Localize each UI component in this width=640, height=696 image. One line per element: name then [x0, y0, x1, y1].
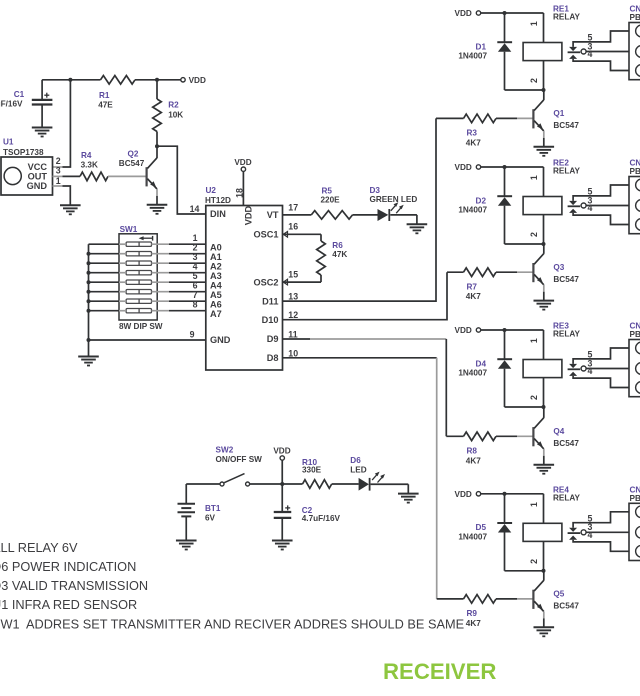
wire VDD rail (relay 4): [481, 493, 544, 495]
node rail/C1/U1 junction: [68, 78, 72, 82]
wire diode bottom to coil pin 2: [505, 406, 544, 408]
svg-text:R7: R7: [467, 282, 478, 291]
LED D3 GREEN LED: [370, 186, 418, 224]
wire VDD rail down to U1 VCC: [53, 80, 71, 167]
IC U1 TSOP1738 IR sensor: [1, 138, 53, 196]
node bus/GND junction: [87, 338, 91, 342]
svg-text:4: 4: [588, 203, 593, 213]
svg-text:VDD: VDD: [455, 326, 472, 335]
node bus row 4: [87, 271, 91, 275]
svg-text:BC547: BC547: [119, 159, 145, 168]
wire OSC2 pin 15: [283, 281, 322, 283]
resistor R6 47K: [317, 234, 348, 282]
svg-text:SW1 ADDRES SET TRANSMITTER AN: SW1 ADDRES SET TRANSMITTER AND RECIVER A…: [0, 616, 464, 631]
svg-text:3.3K: 3.3K: [81, 161, 98, 170]
svg-text:BC547: BC547: [553, 602, 579, 611]
node VDD/D2 junction: [503, 165, 507, 169]
capacitor C2 4.7uF/16V: [274, 484, 341, 540]
svg-text:PBO: PBO: [630, 494, 640, 503]
svg-text:GND: GND: [27, 181, 48, 191]
transistor Q2 BC547: [147, 146, 157, 205]
svg-text:17: 17: [288, 202, 298, 212]
svg-text:U2: U2: [206, 186, 217, 195]
svg-text:Q5: Q5: [553, 590, 564, 599]
transistor Q4 BC547: [533, 407, 579, 465]
wire bus to ground: [88, 340, 90, 356]
node bus row 6: [87, 290, 91, 294]
svg-text:R1: R1: [99, 91, 110, 100]
svg-text:4: 4: [588, 530, 593, 540]
transistor Q1 BC547: [533, 90, 579, 147]
svg-text:R8: R8: [467, 447, 478, 456]
svg-text:12: 12: [288, 310, 298, 320]
wire SW1 row 8 to U2 A7: [152, 310, 206, 312]
svg-text:1: 1: [529, 338, 539, 343]
svg-text:OSC1: OSC1: [253, 230, 278, 240]
svg-text:330E: 330E: [302, 465, 322, 474]
wire R1 to VDD terminal: [135, 79, 181, 81]
svg-text:9: 9: [190, 330, 195, 340]
svg-text:PBO: PBO: [630, 13, 640, 22]
svg-text:PBO: PBO: [630, 330, 640, 339]
wire SW1 row 6 left: [89, 291, 127, 293]
ground (U1): [60, 205, 81, 214]
wire D11 pin 13 to R3: [283, 118, 437, 301]
wire SW1 row 1 to U2 A0: [152, 243, 206, 245]
svg-text:4.7uF/16V: 4.7uF/16V: [0, 100, 23, 109]
ground (SW1 bus): [78, 357, 99, 366]
svg-text:1: 1: [193, 233, 198, 243]
svg-text:1N4007: 1N4007: [458, 52, 487, 61]
battery BT1 6V: [178, 484, 221, 540]
wire diode bottom to coil pin 2: [505, 243, 544, 245]
resistor R8 4K7: [446, 432, 533, 465]
svg-text:D2: D2: [476, 196, 487, 205]
wire SW1 row 4 to U2 A3: [152, 272, 206, 274]
wire contact 5 (NC): [573, 185, 629, 201]
svg-text:1N4007: 1N4007: [458, 206, 487, 215]
svg-text:D3: D3: [370, 186, 381, 195]
diode D1 1N4007: [458, 13, 512, 90]
svg-text:1: 1: [529, 21, 539, 26]
svg-text:D10: D10: [262, 315, 279, 325]
svg-text:D9: D9: [267, 334, 279, 344]
power terminal VDD (relay 3): [455, 326, 481, 335]
wire U1 GND to ground: [53, 186, 71, 205]
resistor R10 330E: [302, 458, 332, 488]
svg-text:A3: A3: [210, 271, 222, 281]
svg-text:C1: C1: [14, 90, 25, 99]
svg-text:VDD: VDD: [189, 76, 206, 85]
svg-text:VDD: VDD: [455, 9, 472, 18]
svg-text:16: 16: [288, 222, 298, 232]
svg-text:A6: A6: [210, 300, 222, 310]
wire SW1 row 7 left: [89, 300, 127, 302]
ground (C1): [32, 128, 53, 137]
svg-text:47K: 47K: [332, 250, 347, 259]
svg-text:2: 2: [529, 78, 539, 83]
svg-text:RELAY: RELAY: [553, 493, 581, 502]
OSC2 input marker: [283, 279, 287, 285]
svg-text:Q3: Q3: [553, 263, 564, 272]
svg-text:ALL RELAY 6V: ALL RELAY 6V: [0, 540, 78, 555]
node coil pin2/collector junction: [542, 569, 546, 573]
svg-text:PBO: PBO: [630, 167, 640, 176]
wire contact 3 (common): [586, 51, 629, 53]
wire Q2 collector to U2 DIN (pin 14): [157, 146, 206, 214]
svg-text:4: 4: [193, 262, 198, 272]
svg-text:BC547: BC547: [553, 275, 579, 284]
svg-text:1: 1: [56, 176, 61, 186]
svg-text:R5: R5: [322, 187, 333, 196]
svg-text:RECEIVER: RECEIVER: [383, 659, 496, 684]
OSC1 input marker: [283, 232, 287, 238]
svg-text:LED: LED: [350, 465, 366, 474]
transistor Q3 BC547: [533, 244, 579, 301]
resistor R9 4K7: [437, 595, 533, 628]
svg-text:D4: D4: [476, 359, 487, 368]
wire VDD rail (relay 1): [481, 12, 544, 14]
connector CN1 terminal block: [629, 5, 640, 80]
wire VT pin 17: [283, 214, 312, 216]
svg-text:OSC2: OSC2: [253, 277, 278, 287]
svg-text:A1: A1: [210, 252, 222, 262]
svg-text:2: 2: [193, 243, 198, 253]
wire SW1 row 4 left: [89, 272, 127, 274]
svg-text:A7: A7: [210, 309, 222, 319]
power terminal VDD (relay 2): [455, 163, 481, 172]
svg-text:OUT: OUT: [28, 172, 48, 182]
transistor Q5 BC547: [533, 571, 579, 628]
wire contact 4 (NO): [573, 59, 629, 71]
wire SW1 row 3 left: [89, 262, 127, 264]
node bus row 5: [87, 280, 91, 284]
relay RE2 RELAY coil: [523, 159, 580, 244]
wire contact 4 (NO): [573, 213, 629, 225]
wire R10 to D6: [332, 483, 359, 485]
svg-text:D11: D11: [262, 296, 278, 306]
node bus row 7: [87, 299, 91, 303]
svg-text:4K7: 4K7: [466, 292, 481, 301]
svg-text:220E: 220E: [321, 196, 341, 205]
ground (emitter of Q2): [147, 205, 168, 214]
resistor R7 4K7: [447, 268, 533, 301]
resistor R5 220E: [311, 187, 352, 220]
svg-text:Q2: Q2: [128, 149, 139, 158]
svg-text:GREEN LED: GREEN LED: [370, 195, 418, 204]
svg-text:1N4007: 1N4007: [458, 533, 487, 542]
wire SW1 row 3 to U2 A2: [152, 262, 206, 264]
node R2/Q2 collector junction: [155, 144, 159, 148]
power terminal VDD (supply): [273, 447, 290, 484]
wire contact 4 (NO): [573, 540, 629, 552]
svg-text:11: 11: [288, 330, 297, 340]
wire SW1 row 7 to U2 A6: [152, 300, 206, 302]
svg-text:VDD: VDD: [243, 205, 253, 225]
wire diode bottom to coil pin 2: [505, 570, 544, 572]
svg-text:BT1: BT1: [205, 504, 221, 513]
svg-text:R2: R2: [168, 101, 179, 110]
resistor R1 47E: [98, 76, 135, 110]
svg-text:3: 3: [56, 166, 61, 176]
svg-text:R4: R4: [81, 151, 92, 160]
wire contact 4 (NO): [573, 376, 629, 388]
relay RE4 contact pole: [568, 528, 587, 540]
svg-text:D5: D5: [476, 523, 487, 532]
wire D8 pin 10 to R9: [283, 358, 437, 599]
node VDD/D4 junction: [503, 328, 507, 332]
svg-text:D3 VALID TRANSMISSION: D3 VALID TRANSMISSION: [0, 578, 148, 593]
wire D9 pin 11 to R8: [283, 339, 447, 436]
svg-text:D6: D6: [350, 456, 361, 465]
node coil pin2/collector junction: [542, 405, 546, 409]
diode D2 1N4007: [458, 167, 512, 244]
wire R4 to Q2 base: [108, 175, 146, 177]
node VDD/D1 junction: [503, 11, 507, 15]
wire contact 3 (common): [586, 205, 629, 207]
svg-text:U1 INFRA RED SENSOR: U1 INFRA RED SENSOR: [0, 597, 137, 612]
wire U2 GND pin 9: [89, 339, 206, 341]
svg-text:A0: A0: [210, 243, 222, 253]
svg-text:4K7: 4K7: [466, 619, 481, 628]
svg-text:GND: GND: [210, 335, 231, 345]
ground (emitter of Q3): [534, 301, 555, 310]
svg-text:15: 15: [288, 270, 298, 280]
wire SW1 row 2 to U2 A1: [152, 253, 206, 255]
switch SW2 ON/OFF SW: [216, 445, 263, 486]
svg-text:A2: A2: [210, 262, 222, 272]
svg-text:4K7: 4K7: [466, 456, 481, 465]
ground (C2): [272, 541, 293, 550]
wire SW1 common bus: [88, 244, 90, 340]
connector CN2 terminal block: [629, 159, 640, 234]
relay RE1 contact pole: [568, 47, 587, 59]
ground (D3): [407, 224, 428, 233]
svg-text:10: 10: [288, 348, 298, 358]
wire SW1 row 6 to U2 A5: [152, 291, 206, 293]
resistor R4 3.3K: [53, 151, 108, 181]
svg-text:TSOP1738: TSOP1738: [3, 148, 44, 157]
wire top VDD rail: [42, 79, 100, 81]
svg-text:3: 3: [193, 252, 198, 262]
wire contact 5 (NC): [573, 512, 629, 528]
svg-text:47E: 47E: [98, 100, 113, 109]
power terminal VDD (relay 4): [455, 490, 481, 499]
wire contact 3 (common): [586, 368, 629, 370]
svg-text:5: 5: [193, 271, 198, 281]
wire SW1 row 1 left: [89, 243, 127, 245]
wire VDD to U2 pin 18: [242, 171, 244, 205]
svg-text:RELAY: RELAY: [553, 330, 581, 339]
LED D6 power indicator: [350, 456, 408, 494]
svg-text:10K: 10K: [168, 110, 183, 119]
wire contact 3 (common): [586, 531, 629, 533]
svg-text:HT12D: HT12D: [205, 196, 231, 205]
node bus row 2: [87, 252, 91, 256]
svg-text:SW2: SW2: [216, 445, 234, 454]
svg-text:SW1: SW1: [120, 225, 138, 234]
node coil pin2/collector junction: [542, 242, 546, 246]
svg-text:ON/OFF SW: ON/OFF SW: [216, 455, 263, 464]
svg-text:VDD: VDD: [234, 158, 251, 167]
svg-text:4: 4: [588, 49, 593, 59]
relay RE4 RELAY coil: [523, 485, 580, 570]
svg-text:D8: D8: [267, 353, 279, 363]
resistor R2 10K: [153, 80, 184, 146]
svg-text:VDD: VDD: [455, 163, 472, 172]
svg-text:1: 1: [529, 175, 539, 180]
diode D4 1N4007: [458, 330, 512, 407]
wire R5 to D3: [353, 214, 378, 216]
svg-text:VDD: VDD: [455, 490, 472, 499]
svg-text:VCC: VCC: [28, 162, 48, 172]
wire SW1 row 8 left: [89, 310, 127, 312]
diode D5 1N4007: [458, 494, 512, 571]
wire contact 5 (NC): [573, 31, 629, 47]
wire SW1 row 5 left: [89, 281, 127, 283]
relay RE1 RELAY coil: [523, 5, 580, 90]
svg-text:R9: R9: [467, 609, 478, 618]
wire D10 pin 12 to R7: [283, 272, 448, 320]
svg-text:14: 14: [190, 204, 200, 214]
ground (emitter of Q1): [534, 147, 555, 156]
svg-text:RELAY: RELAY: [553, 13, 581, 22]
power terminal VDD (top): [181, 76, 206, 85]
node VDD/D5 junction: [503, 492, 507, 496]
svg-text:A4: A4: [210, 281, 223, 291]
relay RE3 RELAY coil: [523, 322, 580, 407]
node VDD/C2/R10 junction: [280, 482, 284, 486]
svg-text:D1: D1: [476, 42, 487, 51]
node bus row 3: [87, 261, 91, 265]
svg-text:4.7uF/16V: 4.7uF/16V: [302, 514, 341, 523]
relay RE2 contact pole: [568, 201, 587, 213]
svg-text:VDD: VDD: [273, 447, 290, 456]
ground (BT1): [176, 541, 197, 550]
connector CN4 terminal block: [629, 485, 640, 560]
svg-text:6: 6: [193, 281, 198, 291]
svg-text:BC547: BC547: [553, 121, 579, 130]
svg-text:13: 13: [288, 292, 298, 302]
svg-text:RELAY: RELAY: [553, 167, 581, 176]
IC U2 HT12D decoder: [205, 186, 283, 370]
wire battery to switch: [186, 483, 220, 485]
node rail/R2 junction: [155, 78, 159, 82]
node coil pin2/collector junction: [542, 88, 546, 92]
relay RE3 contact pole: [568, 364, 587, 376]
wire switch to VDD node: [250, 483, 303, 485]
connector CN3 terminal block: [629, 322, 640, 397]
svg-text:R6: R6: [332, 241, 343, 250]
svg-text:D6 POWER INDICATION: D6 POWER INDICATION: [0, 559, 136, 574]
svg-text:4K7: 4K7: [466, 138, 481, 147]
node bus row 8: [87, 309, 91, 313]
resistor R3 4K7: [436, 114, 533, 147]
svg-text:8W DIP SW: 8W DIP SW: [119, 322, 163, 331]
power terminal VDD (U2 pin 18): [234, 158, 251, 172]
wire OSC1 pin 16: [283, 233, 322, 235]
svg-text:2: 2: [56, 156, 61, 166]
switch SW1 8W DIP SW: [119, 225, 163, 331]
ground (D6): [398, 494, 419, 503]
wire SW1 row 2 left: [89, 253, 127, 255]
svg-text:Q1: Q1: [553, 109, 564, 118]
svg-text:A5: A5: [210, 290, 222, 300]
svg-text:2: 2: [529, 395, 539, 400]
capacitor C1 4.7uF/16V: [0, 80, 52, 127]
svg-text:2: 2: [529, 232, 539, 237]
svg-text:6V: 6V: [205, 514, 216, 523]
power terminal VDD (relay 1): [455, 9, 481, 18]
svg-text:VT: VT: [267, 210, 279, 220]
ground (emitter of Q4): [534, 465, 555, 474]
svg-text:8: 8: [193, 300, 198, 310]
svg-text:BC547: BC547: [553, 439, 579, 448]
svg-text:7: 7: [193, 290, 198, 300]
wire contact 5 (NC): [573, 348, 629, 364]
svg-text:1N4007: 1N4007: [458, 369, 487, 378]
wire diode bottom to coil pin 2: [505, 89, 544, 91]
svg-text:Q4: Q4: [553, 427, 564, 436]
ground (emitter of Q5): [534, 627, 555, 636]
svg-text:2: 2: [529, 559, 539, 564]
wire VDD rail (relay 2): [481, 166, 544, 168]
wire SW1 row 5 to U2 A4: [152, 281, 206, 283]
svg-text:U1: U1: [3, 138, 14, 147]
svg-text:R3: R3: [467, 129, 478, 138]
wire VDD rail (relay 3): [481, 329, 544, 331]
svg-text:1: 1: [529, 502, 539, 507]
svg-text:4: 4: [588, 366, 593, 376]
svg-text:DIN: DIN: [210, 209, 226, 219]
